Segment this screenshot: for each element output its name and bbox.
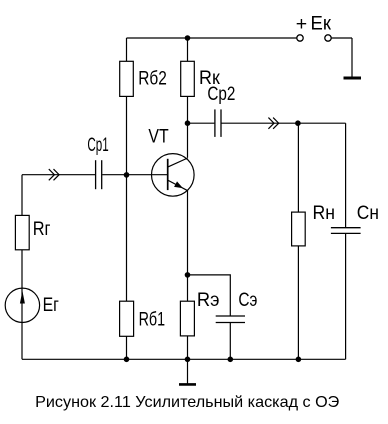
- capacitor Сэ plates: [216, 316, 245, 323]
- transistor VT emitter line: [168, 180, 188, 191]
- resistor Rб1: [120, 301, 134, 336]
- node dot Rн bottom: [296, 357, 302, 363]
- resistor Rг: [15, 215, 29, 249]
- node dot ground rail: [185, 357, 191, 363]
- wire Rэ to bottom rail: [187, 336, 189, 359]
- ground top right: [344, 77, 362, 80]
- node dot collector Ср2: [185, 120, 191, 126]
- wire emitter branch to Сэ: [188, 275, 231, 316]
- wire Сн column upper: [345, 123, 347, 227]
- terminal circle Ек: [325, 35, 331, 41]
- wire column Rб2 upper: [126, 38, 128, 61]
- capacitor Ср2 plates: [215, 109, 221, 136]
- wire Cp2 row right: [222, 122, 346, 124]
- transistor VT circle: [152, 154, 195, 197]
- wire Cp1 to base: [102, 174, 168, 176]
- resistor Rн: [292, 212, 306, 246]
- node dot top rail: [185, 35, 191, 41]
- resistor Rб2: [120, 61, 134, 96]
- wire input row: [22, 174, 95, 176]
- wire left column down: [21, 175, 23, 360]
- svg-text:Rг: Rг: [33, 218, 51, 240]
- node dot Rб1 bottom: [124, 357, 130, 363]
- wire bottom ground drop: [187, 359, 189, 383]
- wire top rail left of terminal: [127, 37, 297, 39]
- wire right ground drop: [351, 38, 353, 77]
- svg-text:Rб1: Rб1: [139, 308, 166, 330]
- wire Rб1 to bottom rail: [126, 336, 128, 359]
- svg-text:Rн: Rн: [313, 202, 336, 224]
- wire Rк to collector: [187, 96, 189, 157]
- wire bottom rail: [22, 358, 346, 360]
- svg-text:Ек: Ек: [311, 13, 332, 35]
- svg-text:+: +: [296, 13, 307, 35]
- source Ег circle: [5, 288, 39, 322]
- wire Rн column lower: [297, 246, 299, 359]
- svg-text:Рисунок 2.11 Усилительный каск: Рисунок 2.11 Усилительный каскад с ОЭ: [35, 394, 339, 411]
- resistor Rк: [181, 61, 195, 96]
- svg-text:Ср1: Ср1: [87, 134, 108, 156]
- wire Сэ to bottom rail: [229, 323, 231, 359]
- output arrow chevrons: [268, 118, 278, 129]
- capacitor Сн plates: [331, 228, 361, 234]
- resistor Rэ: [180, 301, 194, 336]
- wire Cp2 row left: [188, 122, 215, 124]
- wire top rail to Rк: [187, 38, 189, 61]
- node dot output: [295, 120, 301, 126]
- wire Сн column lower: [345, 234, 347, 359]
- ground bottom: [179, 383, 196, 386]
- node dot base junction: [124, 172, 130, 178]
- wire Rн column upper: [297, 123, 299, 212]
- terminal circle plus: [297, 35, 303, 41]
- node dot Сэ bottom: [228, 357, 234, 363]
- svg-text:Rб2: Rб2: [138, 68, 167, 90]
- transistor VT collector line: [168, 158, 188, 167]
- transistor VT emitter arrow: [175, 182, 182, 188]
- svg-text:Rэ: Rэ: [197, 289, 220, 311]
- transistor VT base bar: [167, 159, 169, 190]
- svg-text:VT: VT: [148, 126, 168, 148]
- svg-text:Сн: Сн: [357, 202, 379, 224]
- capacitor Ср1 plates: [96, 160, 102, 189]
- node dot emitter: [185, 272, 191, 278]
- svg-text:Сэ: Сэ: [238, 289, 257, 311]
- wire emitter down: [187, 190, 189, 301]
- svg-text:Ср2: Ср2: [207, 83, 235, 105]
- input arrow chevrons: [49, 169, 59, 180]
- svg-text:Ег: Ег: [43, 294, 59, 316]
- wire terminal to right corner: [331, 37, 352, 39]
- source Ег arrow: [20, 291, 25, 304]
- wire Rб2 to Rб1: [126, 96, 128, 301]
